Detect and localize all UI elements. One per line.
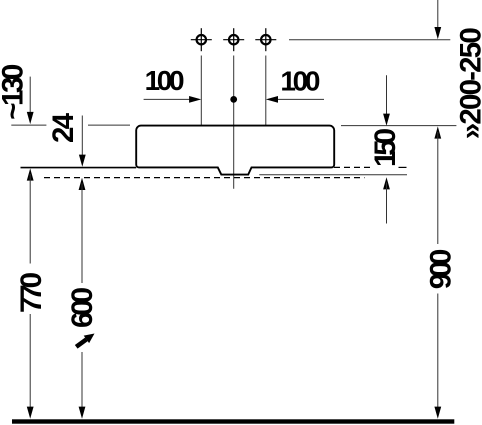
centerline through middle tap hole xyxy=(233,56,235,189)
extension line below right tap hole xyxy=(265,56,267,126)
dimension 900 line with arrows xyxy=(434,126,441,418)
dimension 150 lower arrow xyxy=(383,177,390,223)
dimension 100 right: line and arrow xyxy=(266,96,324,103)
hidden countertop dashed line right xyxy=(334,166,370,168)
floor line xyxy=(12,419,454,423)
svg-text:24: 24 xyxy=(47,112,80,143)
center reference dot xyxy=(230,96,237,103)
lower dashed line xyxy=(44,177,365,179)
svg-text:600: 600 xyxy=(66,287,99,328)
svg-text:150: 150 xyxy=(369,128,402,167)
rim reference line far left xyxy=(11,124,46,126)
tap hole right xyxy=(255,28,276,51)
svg-text:900: 900 xyxy=(424,249,457,290)
rim extension line right xyxy=(341,125,456,127)
tap hole row reference line to right xyxy=(289,39,450,41)
rim reference line mid left xyxy=(88,124,130,126)
hidden countertop dash after label xyxy=(399,166,407,168)
dimension 100 left: line and arrow xyxy=(144,96,202,103)
height adjustable symbol xyxy=(76,334,94,347)
dimension 200-250 upper arrow xyxy=(434,0,441,39)
dimension 770 line with arrows xyxy=(27,168,34,418)
svg-text:100: 100 xyxy=(280,66,320,97)
svg-text:770: 770 xyxy=(15,272,48,313)
dimension ~130 line and arrow xyxy=(27,77,34,125)
dimension 24 line and arrow xyxy=(79,116,86,167)
tap hole left xyxy=(191,28,212,51)
svg-text:~130: ~130 xyxy=(0,64,30,120)
drain level line xyxy=(259,174,407,176)
svg-text:100: 100 xyxy=(145,65,185,96)
extension line below left tap hole xyxy=(200,56,202,126)
svg-text:»200-250: »200-250 xyxy=(455,27,482,139)
countertop line left xyxy=(21,167,137,169)
washbasin body xyxy=(136,126,334,175)
tap hole middle xyxy=(223,28,244,51)
dimension 150 upper arrow xyxy=(383,75,390,126)
dimension 600 line with arrows xyxy=(79,178,86,419)
